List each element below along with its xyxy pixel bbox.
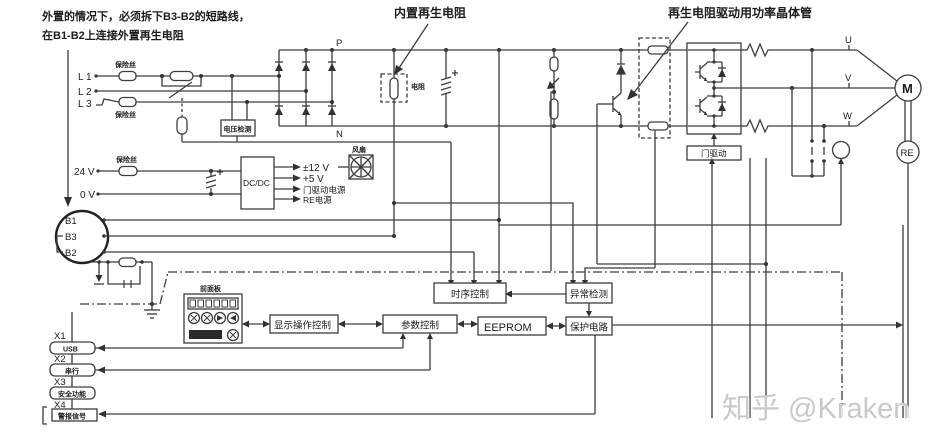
gate wire of Q1 down bbox=[596, 104, 598, 264]
output +5V bbox=[274, 174, 324, 185]
svg-text:显示操作控制: 显示操作控制 bbox=[274, 320, 331, 332]
wire gate-drive to module bbox=[711, 133, 717, 146]
voltage divider lower resistor bbox=[550, 99, 558, 126]
svg-text:保护电路: 保护电路 bbox=[570, 322, 609, 334]
IGBT power module U1 bbox=[687, 43, 741, 134]
fan FN1 bbox=[349, 155, 373, 179]
wire drive drop x750 bbox=[749, 158, 751, 418]
shunt resistor top bbox=[648, 46, 668, 54]
note text top-left bbox=[41, 9, 250, 42]
wire down x451 bbox=[450, 142, 452, 283]
motor M1 bbox=[895, 75, 921, 101]
IGBT Q3 lower with freewheel diode bbox=[695, 94, 726, 117]
fuse F1 bbox=[119, 72, 136, 81]
svg-text:DC/DC: DC/DC bbox=[243, 178, 270, 188]
wire anomaly to protect bbox=[586, 303, 592, 317]
fuse F2 bbox=[119, 98, 136, 107]
connector X1 USB bbox=[50, 342, 95, 354]
brake common wire bbox=[792, 88, 824, 178]
block parameter-control bbox=[383, 315, 457, 333]
wire parameter-EEPROM bbox=[457, 321, 478, 328]
wire gate-drive control drop bbox=[709, 158, 715, 418]
relay coil dashed link bbox=[181, 98, 183, 117]
relay coil bbox=[177, 117, 187, 134]
current transformer CT1 bbox=[833, 142, 850, 159]
shunt sense wire bbox=[654, 130, 656, 268]
shunt resistor bottom bbox=[648, 122, 668, 130]
svg-text:W: W bbox=[843, 111, 852, 122]
block gate-drive bbox=[687, 146, 741, 160]
divider tap sense wire bbox=[551, 90, 556, 271]
label B3 bbox=[65, 232, 106, 243]
svg-text:内置再生电阻: 内置再生电阻 bbox=[394, 5, 466, 20]
svg-text:0 V: 0 V bbox=[80, 190, 95, 201]
voltage detect taps bbox=[231, 76, 233, 120]
brake contact b bbox=[822, 126, 826, 176]
wire regen thermal sense bbox=[394, 203, 573, 283]
IGBT Q2 upper with freewheel diode bbox=[695, 60, 726, 83]
svg-text:警报信号: 警报信号 bbox=[58, 412, 86, 421]
svg-text:门驱动电源: 门驱动电源 bbox=[303, 185, 346, 195]
relay switch blade bbox=[169, 82, 192, 98]
U phase wire bbox=[741, 49, 744, 51]
svg-text:保险丝: 保险丝 bbox=[114, 60, 136, 69]
wire B1 bbox=[104, 219, 499, 221]
wire 0V bbox=[98, 193, 241, 195]
P rail junction dots bbox=[304, 48, 623, 52]
svg-text:P: P bbox=[336, 38, 342, 49]
svg-text:串行: 串行 bbox=[65, 367, 79, 376]
svg-text:±12 V: ±12 V bbox=[303, 163, 329, 174]
regen diode D7 bbox=[617, 50, 625, 93]
wire gate loop bbox=[597, 263, 766, 265]
svg-text:参数控制: 参数控制 bbox=[401, 320, 439, 332]
svg-text:B1: B1 bbox=[65, 216, 77, 227]
block DC/DC bbox=[241, 157, 274, 209]
wire to earth bbox=[150, 262, 154, 310]
svg-text:时序控制: 时序控制 bbox=[451, 289, 489, 301]
block timing-control bbox=[434, 283, 506, 303]
wire horizontal run y142 bbox=[182, 141, 451, 143]
wire 24V bbox=[98, 170, 119, 172]
V phase wire bbox=[741, 87, 895, 89]
svg-text:保险丝: 保险丝 bbox=[114, 110, 136, 119]
dashed box around regen resistor bbox=[381, 74, 407, 102]
voltage divider upper resistor bbox=[550, 50, 558, 71]
svg-text:L 1: L 1 bbox=[78, 72, 92, 83]
block display-operation-control bbox=[270, 315, 338, 333]
svg-text:+5 V: +5 V bbox=[303, 174, 324, 185]
junction dots on phase wires bbox=[790, 48, 826, 128]
svg-text:EEPROM: EEPROM bbox=[484, 322, 532, 334]
label U bbox=[845, 35, 852, 50]
wire anomaly to timing bbox=[505, 291, 566, 298]
svg-text:知乎 @Kraken: 知乎 @Kraken bbox=[722, 392, 909, 425]
divider zener bbox=[547, 71, 559, 99]
connector X3 safety bbox=[50, 387, 95, 399]
dashed current-shunt box bbox=[639, 38, 670, 138]
relay bypass loop under K1 bbox=[162, 76, 201, 86]
wire EEPROM-protect bbox=[546, 323, 566, 330]
svg-text:门驱动: 门驱动 bbox=[701, 149, 727, 159]
label B1 bbox=[65, 216, 106, 227]
main bus capacitor C1 bbox=[441, 50, 458, 126]
IGBT module internal bus bbox=[688, 48, 741, 128]
wire B2 bbox=[104, 251, 474, 253]
svg-text:RE: RE bbox=[901, 148, 914, 159]
output +-12V bbox=[274, 163, 329, 174]
encoder feedback wire bbox=[907, 163, 909, 418]
junction dots L1 bbox=[94, 74, 234, 78]
svg-text:L 2: L 2 bbox=[78, 87, 92, 98]
label V bbox=[845, 73, 852, 88]
block anomaly-detect bbox=[566, 283, 612, 303]
svg-text:X1: X1 bbox=[54, 331, 66, 342]
svg-text:24 V: 24 V bbox=[74, 167, 95, 178]
encoder RE bbox=[897, 141, 919, 163]
W diagonal to motor bbox=[857, 95, 897, 126]
connector X4 alarm bbox=[43, 407, 97, 424]
wire USB to parameter-control bbox=[95, 333, 406, 352]
wire coil to bottom run bbox=[181, 134, 183, 142]
svg-text:B3: B3 bbox=[65, 232, 77, 243]
svg-text:保险丝: 保险丝 bbox=[115, 155, 137, 164]
RC network at B terminals bbox=[92, 258, 152, 288]
label W bbox=[843, 111, 852, 126]
connector X2 serial bbox=[50, 364, 95, 376]
fuse F3 bbox=[119, 167, 137, 176]
wire serial to parameter-control bbox=[95, 333, 433, 374]
dash-dot boundary line bbox=[80, 272, 842, 418]
svg-text:USB: USB bbox=[63, 347, 78, 354]
wire B3 bbox=[104, 235, 394, 237]
arrow to regen resistor bbox=[394, 24, 428, 75]
svg-text:V: V bbox=[845, 73, 852, 84]
svg-text:电压检测: 电压检测 bbox=[224, 125, 252, 134]
block EEPROM bbox=[478, 317, 546, 335]
N rail junction dots bbox=[444, 124, 623, 128]
wire L3 bbox=[96, 99, 119, 105]
front panel assembly bbox=[184, 294, 242, 343]
wire drive drop x766 bbox=[765, 158, 767, 418]
W phase wire bbox=[741, 125, 744, 127]
svg-text:B2: B2 bbox=[65, 248, 77, 259]
svg-text:U: U bbox=[845, 35, 852, 46]
control cap C2 bbox=[206, 169, 223, 194]
wire B2 to timing control bbox=[471, 252, 477, 287]
bridge phase junction dots bbox=[277, 74, 334, 104]
short bar bracket B3-B2 bbox=[57, 236, 63, 252]
label B2 bbox=[65, 248, 106, 259]
svg-text:风扇: 风扇 bbox=[352, 145, 366, 154]
block protection-circuit bbox=[566, 317, 612, 335]
svg-text:前面板: 前面板 bbox=[200, 284, 222, 293]
wire protect trip to right bbox=[589, 322, 903, 329]
chassis ground arrow bbox=[94, 262, 104, 284]
output RE-power bbox=[274, 195, 332, 205]
wire shunt sense to detect bbox=[585, 268, 655, 283]
wire P-to-B1 drop x499 bbox=[498, 50, 500, 283]
wire alarm from protection bbox=[98, 335, 595, 418]
svg-text:RE电源: RE电源 bbox=[303, 195, 332, 205]
earth ground bbox=[144, 310, 160, 318]
wire display to parameter bbox=[338, 321, 383, 328]
wire 12V to fan bbox=[338, 166, 349, 168]
wire L2 bbox=[96, 90, 306, 92]
P rail bbox=[279, 49, 648, 51]
rectifier bridge column 3 bbox=[328, 50, 336, 126]
CT sense wire with arrow bbox=[499, 158, 844, 225]
svg-text:电阻: 电阻 bbox=[411, 82, 425, 91]
block voltage-detect bbox=[221, 120, 255, 136]
rectifier bridge column 1 bbox=[275, 50, 283, 126]
svg-text:外置的情况下，必须拆下B3-B2的短路线，: 外置的情况下，必须拆下B3-B2的短路线， bbox=[41, 9, 250, 23]
arrow from note to terminal B1 bbox=[64, 50, 72, 207]
motor-encoder shaft double line bbox=[905, 101, 911, 141]
wire voltage-detect to run bbox=[236, 136, 238, 142]
regen resistor R-regen bbox=[390, 50, 398, 236]
wire panel to display-control bbox=[242, 321, 270, 328]
arrow to regen transistor bbox=[627, 22, 688, 100]
wire motor line right vertical bbox=[902, 225, 904, 418]
output gate-drive-power bbox=[274, 185, 346, 195]
N rail bbox=[279, 125, 648, 127]
svg-text:N: N bbox=[336, 129, 343, 140]
svg-text:安全功能: 安全功能 bbox=[58, 390, 86, 399]
svg-text:在B1-B2上连接外置再生电阻: 在B1-B2上连接外置再生电阻 bbox=[42, 28, 184, 42]
relay contact K1 on L1 bbox=[170, 72, 193, 81]
svg-text:再生电阻驱动用功率晶体管: 再生电阻驱动用功率晶体管 bbox=[668, 5, 812, 20]
terminal circle B1 B3 B2 bbox=[56, 211, 108, 263]
sense resistor on W phase bbox=[744, 120, 772, 132]
connector spine bbox=[71, 312, 73, 411]
U diagonal to motor bbox=[857, 50, 897, 81]
svg-text:异常检测: 异常检测 bbox=[570, 289, 608, 301]
svg-text:M: M bbox=[902, 81, 913, 96]
brake contact a bbox=[810, 50, 814, 176]
rectifier bridge column 2 bbox=[302, 50, 310, 126]
svg-text:L 3: L 3 bbox=[78, 99, 92, 110]
sense resistor on U phase bbox=[744, 44, 772, 56]
regen transistor Q1 bbox=[597, 93, 621, 126]
wire L1 bbox=[96, 75, 119, 77]
